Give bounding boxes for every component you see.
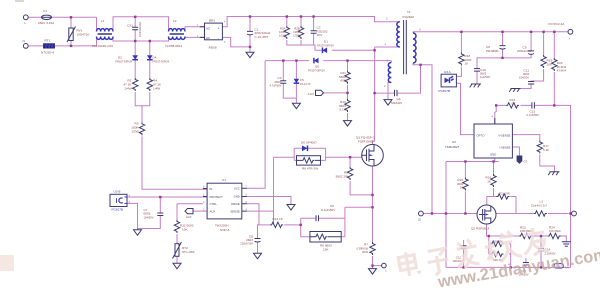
svg-text:CTRL: CTRL (210, 202, 218, 206)
svg-text:D4: D4 (153, 56, 157, 60)
svg-text:GT: GT (524, 160, 528, 164)
svg-text:PC817B: PC817B (439, 89, 451, 93)
svg-text:Q2 RSF06L3: Q2 RSF06L3 (471, 227, 489, 231)
svg-text:0603: 0603 (144, 212, 151, 216)
svg-text:VCC: VCC (234, 187, 240, 191)
svg-text:R8 47R-2W: R8 47R-2W (302, 167, 318, 171)
svg-text:0R: 0R (512, 101, 515, 105)
svg-text:U3 A: U3 A (444, 70, 452, 74)
svg-text:GND: GND (234, 195, 240, 199)
svg-text:+: + (218, 27, 220, 31)
svg-text:DRIVE: DRIVE (231, 202, 240, 206)
svg-text:C11: C11 (524, 69, 530, 73)
svg-text:C4: C4 (397, 97, 401, 101)
svg-text:CX1: CX1 (127, 24, 133, 28)
svg-text:FR107-DIP/24: FR107-DIP/24 (317, 43, 334, 47)
svg-text:220uF/16V: 220uF/16V (240, 242, 253, 246)
svg-text:RT1: RT1 (45, 38, 51, 42)
svg-text:L2: L2 (173, 19, 177, 23)
svg-text:C10: C10 (480, 68, 486, 72)
svg-text:V-SENSE: V-SENSE (498, 133, 510, 137)
svg-text:C12: C12 (456, 256, 461, 260)
svg-text:0603: 0603 (523, 72, 529, 76)
svg-text:104/50V: 104/50V (519, 76, 529, 80)
svg-text:104/50V: 104/50V (144, 215, 154, 219)
svg-text:250V 3.15A: 250V 3.15A (38, 21, 55, 25)
svg-text:FR107-DIP/24: FR107-DIP/24 (153, 60, 170, 64)
svg-text:0603: 0603 (480, 71, 486, 75)
svg-text:R20: R20 (557, 61, 563, 65)
svg-text:L3: L3 (540, 200, 544, 204)
svg-text:10K: 10K (547, 62, 553, 66)
svg-text:FR107-DIP/24: FR107-DIP/24 (308, 68, 325, 72)
svg-text:RT2: RT2 (182, 246, 188, 250)
svg-text:R1W: R1W (362, 250, 368, 254)
svg-text:5.1K: 5.1K (339, 108, 346, 112)
svg-text:AUX: AUX (186, 215, 192, 219)
svg-text:C9: C9 (523, 45, 527, 49)
svg-text:0603: 0603 (275, 80, 282, 84)
svg-text:1/2W: 1/2W (293, 34, 300, 38)
svg-text:PW-9806F: PW-9806F (486, 49, 499, 53)
svg-text:5.1K: 5.1K (543, 148, 550, 152)
svg-text:D6 UF4007: D6 UF4007 (301, 141, 317, 145)
svg-text:C5: C5 (300, 78, 304, 82)
svg-text:IN: IN (210, 187, 213, 191)
svg-text:0603: 0603 (457, 182, 463, 186)
svg-text:N: N (23, 39, 25, 43)
svg-text:SOP-8: SOP-8 (220, 228, 230, 232)
svg-text:THX203H: THX203H (215, 224, 229, 228)
svg-text:D2: D2 (118, 56, 122, 60)
svg-text:TSM1052T: TSM1052T (445, 145, 460, 149)
svg-text:R13 1K: R13 1K (273, 217, 284, 221)
svg-text:PC817B: PC817B (112, 207, 124, 211)
svg-text:43.9K/4: 43.9K/4 (557, 68, 567, 72)
svg-text:4.7uF/50V: 4.7uF/50V (270, 84, 282, 88)
svg-text:TLF19190-24H: TLF19190-24H (92, 44, 113, 48)
svg-text:R23: R23 (520, 226, 526, 230)
svg-text:1uF/50V: 1uF/50V (480, 75, 490, 79)
svg-text:NTC-100K: NTC-100K (182, 250, 195, 254)
svg-text:C-10-35H: C-10-35H (255, 35, 268, 39)
svg-text:CAP-MCCM: CAP-MCCM (138, 21, 142, 37)
svg-text:FR107-DIP/24: FR107-DIP/24 (115, 60, 132, 64)
svg-text:0.39R/1W: 0.39R/1W (356, 247, 368, 251)
svg-text:BR1: BR1 (209, 19, 215, 23)
svg-text:10R 0603: 10R 0603 (520, 229, 532, 233)
svg-text:U3 B: U3 B (114, 190, 121, 194)
svg-text:PROTECT: PROTECT (210, 195, 224, 199)
svg-text:L1: L1 (101, 19, 105, 23)
svg-text:T1: T1 (407, 10, 411, 14)
svg-text:R7: R7 (364, 243, 368, 247)
svg-text:I-SENSE: I-SENSE (499, 146, 510, 150)
svg-text:5602 2W: 5602 2W (336, 174, 348, 178)
svg-text:D5: D5 (315, 65, 319, 69)
svg-text:R16: R16 (457, 178, 463, 182)
svg-text:J2: J2 (418, 218, 421, 222)
svg-text:U1: U1 (222, 178, 226, 182)
svg-text:PQ2620: PQ2620 (403, 15, 415, 19)
svg-text:1KV: 1KV (317, 33, 324, 37)
svg-text:22uH/4.5 2x7: 22uH/4.5 2x7 (531, 204, 547, 208)
svg-text:D1: D1 (324, 40, 328, 44)
svg-text:F1: F1 (44, 9, 48, 13)
svg-text:1/4W: 1/4W (124, 87, 131, 91)
svg-text:AUX: AUX (210, 209, 216, 213)
svg-text:+: + (569, 37, 571, 41)
svg-text:U2: U2 (452, 140, 456, 144)
svg-text:43K: 43K (340, 79, 346, 83)
svg-text:10K: 10K (182, 228, 188, 232)
svg-text:C3-12-7F: C3-12-7F (300, 82, 311, 86)
svg-text:2200uF/10V: 2200uF/10V (517, 49, 532, 53)
svg-text:R21 10R: R21 10R (499, 192, 510, 196)
svg-text:R24: R24 (549, 226, 555, 230)
svg-text:VO 5V/2.4A: VO 5V/2.4A (548, 22, 565, 26)
svg-text:L: L (25, 21, 27, 25)
svg-text:1/2W: 1/2W (279, 34, 286, 38)
svg-text:0603: 0603 (246, 238, 253, 242)
svg-text:36.3K/6: 36.3K/6 (557, 65, 567, 69)
svg-text:1K: 1K (460, 186, 463, 190)
svg-text:1/2W: 1/2W (131, 130, 138, 134)
svg-text:FQPF10N60: FQPF10N60 (358, 140, 374, 144)
svg-text:564/630V: 564/630V (391, 101, 402, 105)
svg-text:0.1uF/50V: 0.1uF/50V (527, 113, 540, 117)
svg-text:ABS8: ABS8 (209, 46, 217, 50)
svg-text:-: - (218, 36, 219, 40)
svg-text:OPTO: OPTO (477, 133, 486, 137)
svg-text:NTC5D-9: NTC5D-9 (41, 51, 54, 55)
svg-text:1/4W: 1/4W (153, 87, 160, 91)
svg-text:0.1uF/50V: 0.1uF/50V (321, 208, 336, 212)
svg-text:15K: 15K (323, 248, 329, 252)
svg-text:10K 0603: 10K 0603 (549, 229, 561, 233)
svg-text:C8: C8 (486, 45, 490, 49)
svg-text:10D471K: 10D471K (77, 33, 91, 37)
svg-text:C13: C13 (530, 110, 536, 114)
svg-text:AUX: AUX (308, 92, 314, 96)
svg-text:SENSE: SENSE (230, 209, 240, 213)
svg-text:TLF6B-0814: TLF6B-0814 (165, 44, 182, 48)
svg-text:GND: GND (490, 153, 496, 157)
